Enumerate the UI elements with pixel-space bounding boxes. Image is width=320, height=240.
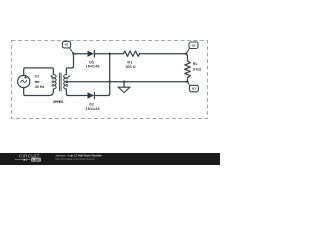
svg-text:XFMR1: XFMR1: [53, 100, 64, 104]
svg-text:httр://circuitlab.com/c6q2nnb2: httр://circuitlab.com/c6q2nnb2snk/: [56, 158, 96, 161]
svg-text:40 Hz: 40 Hz: [35, 85, 45, 89]
svg-text:RL: RL: [193, 62, 199, 66]
svg-text:V1: V1: [35, 75, 40, 79]
svg-text:1N4148: 1N4148: [86, 107, 100, 111]
svg-text:D2: D2: [89, 102, 94, 106]
svg-text:sine: sine: [35, 80, 40, 84]
svg-text:LAB: LAB: [32, 158, 40, 162]
svg-text:N1: N1: [65, 43, 69, 47]
svg-text:ashleym / Lab 12 Half Wave Rec: ashleym / Lab 12 Half Wave Rectifier: [56, 154, 103, 158]
svg-text:300 Ω: 300 Ω: [126, 65, 136, 69]
svg-text:N3: N3: [192, 87, 196, 91]
svg-text:R1: R1: [127, 60, 132, 64]
svg-text:1N4148: 1N4148: [86, 65, 100, 69]
svg-text:8 kΩ: 8 kΩ: [193, 68, 201, 72]
svg-text:N2: N2: [192, 43, 196, 47]
